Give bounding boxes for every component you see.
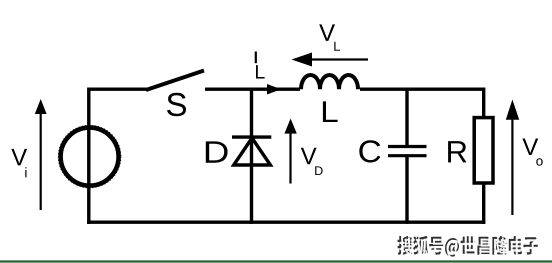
switch S blade <box>146 71 204 91</box>
label V_o <box>522 139 538 156</box>
label V_D <box>301 148 317 165</box>
wire top-right segment <box>360 87 484 90</box>
inductor L humps <box>301 75 358 89</box>
switch S label <box>167 93 186 116</box>
capacitor branch wire upper <box>405 88 408 146</box>
label V_L <box>319 24 335 41</box>
voltage source circle Vi <box>61 128 119 186</box>
resistor R body <box>474 118 493 183</box>
wire left-vertical and top-left segment <box>89 89 147 224</box>
bottom green border line <box>0 260 552 262</box>
diode D label <box>206 141 228 162</box>
voltage arrow V_D <box>289 131 291 184</box>
output arrow V_o <box>511 117 513 215</box>
voltage arrow V_L <box>306 58 368 60</box>
watermark dark layer 搜狐号@世昌隆电子 <box>397 236 537 257</box>
resistor branch wire upper <box>482 88 485 118</box>
capacitor C label <box>359 140 380 162</box>
resistor branch wire lower <box>482 184 485 224</box>
label I_L <box>255 52 257 64</box>
label V_i <box>11 149 27 166</box>
capacitor branch wire lower <box>405 157 408 224</box>
resistor R label <box>448 141 466 162</box>
watermark white highlight layer <box>399 238 539 259</box>
bottom wire <box>87 220 485 223</box>
capacitor C plates <box>388 145 427 148</box>
input arrow Vi <box>40 112 42 210</box>
diode D cathode bar <box>232 135 271 138</box>
inductor L label <box>323 101 338 122</box>
diode branch wire <box>250 89 253 224</box>
diode D triangle <box>234 138 271 165</box>
wire top-middle segment <box>205 87 300 90</box>
current arrow I_L head <box>267 84 281 95</box>
